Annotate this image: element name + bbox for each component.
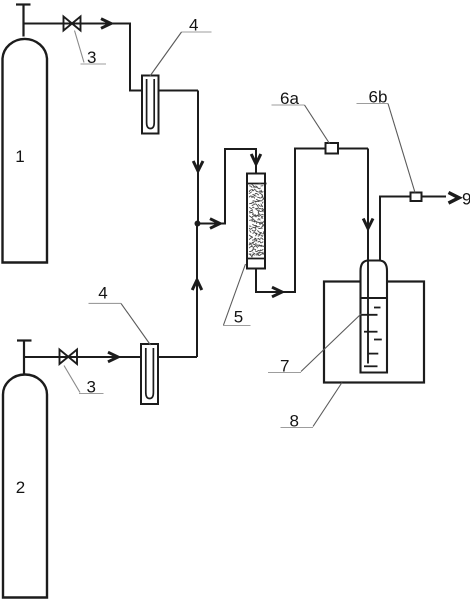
svg-text:2: 2 (16, 478, 25, 497)
gas burette 7 body (361, 261, 388, 373)
cylinder 2 valve stem (23, 341, 25, 375)
column 5 packing stipple (249, 184, 264, 258)
arrow up on vertical wire (192, 280, 202, 290)
wire: cylinder 1 outlet pipe (24, 23, 131, 25)
wire: burette outlet riser (380, 197, 446, 261)
wire: vertical down to junction (197, 91, 199, 224)
column 5 top cap line (247, 183, 267, 185)
wire: riser up to sensor line (295, 149, 368, 294)
arrow on pipe after bottom valve (108, 352, 118, 362)
leader line 3 (bottom) (64, 366, 80, 393)
leader line 3 (top) (75, 31, 85, 63)
svg-text:8: 8 (290, 412, 299, 431)
svg-text:5: 5 (234, 308, 243, 327)
leader line 5 (224, 264, 246, 325)
node: junction dot (195, 221, 201, 227)
leader line 7 (301, 314, 362, 372)
wire: riser up and over to column 5 (225, 149, 256, 225)
wire: vertical up to junction (196, 224, 198, 358)
label underline 7 (268, 372, 301, 374)
label underline 4 (top) (182, 31, 212, 33)
arrow on pipe after top valve (101, 19, 111, 29)
svg-text:4: 4 (98, 284, 107, 303)
wire: down to flowmeter 4 (top) (130, 23, 142, 91)
burette 7 liquid level line (361, 297, 388, 299)
cylinder 2 stem T-bar (17, 339, 32, 341)
leader line 8 (313, 383, 342, 427)
leader line 4 (bottom) (121, 303, 151, 345)
label underline 4 (bottom) (89, 302, 122, 304)
leader line 6a (305, 105, 330, 144)
svg-text:4: 4 (189, 16, 198, 35)
gas cylinder 2 (3, 375, 47, 598)
gas cylinder 1 (3, 39, 48, 263)
label underline 6b (357, 103, 389, 105)
arrow right toward column (210, 219, 220, 229)
svg-text:9: 9 (462, 190, 470, 209)
arrow to outlet 9 (449, 193, 460, 204)
wire: into column top (255, 148, 257, 174)
svg-text:7: 7 (280, 357, 289, 376)
leader line 4 (top) (150, 32, 182, 76)
wire: flowmeter 4 (top) outlet (159, 90, 199, 92)
svg-text:3: 3 (87, 378, 96, 397)
label underline 3 (top) (81, 63, 107, 65)
svg-text:6a: 6a (280, 89, 299, 108)
burette graduation tick 2 (361, 314, 378, 316)
cylinder 1 valve stem (22, 5, 24, 37)
burette graduation tick 6 (364, 365, 378, 367)
water bath box 8 (324, 282, 424, 383)
wire: cylinder 2 outlet pipe (24, 356, 141, 358)
sensor 6a box (326, 143, 339, 154)
wire: junction to riser (198, 223, 226, 225)
sensor 6b box (411, 193, 422, 202)
flowmeter 4 (top) inner tube (147, 79, 155, 129)
burette graduation tick 4 (374, 339, 382, 341)
label underline 6a (272, 104, 305, 106)
arrow into column 5 (251, 154, 261, 164)
cylinder 1 stem T-bar (16, 3, 31, 5)
valve 3 (top) (64, 17, 81, 31)
label underline 5 (223, 325, 251, 327)
burette 7 dip tube continuation (367, 261, 369, 364)
wire: flowmeter 4 (bottom) outlet (158, 356, 197, 358)
flowmeter 4 (bottom) body (141, 344, 158, 404)
arrow right after column outlet (272, 287, 282, 297)
flowmeter 4 (top) body (142, 76, 159, 134)
svg-text:1: 1 (15, 147, 24, 166)
column 5 bottom cap line (247, 258, 265, 260)
burette graduation tick 3 (364, 331, 378, 333)
svg-text:6b: 6b (369, 88, 388, 107)
arrow down on vertical wire (193, 161, 203, 171)
burette graduation tick 1 (374, 307, 381, 309)
wire: column 5 outlet down (256, 269, 295, 293)
label underline 3 (bottom) (79, 393, 104, 395)
valve 3 (bottom) (60, 350, 78, 365)
leader line 6b (388, 104, 415, 193)
label underline 8 (281, 427, 314, 429)
arrow down toward burette (363, 219, 373, 229)
column 5 body (247, 174, 265, 269)
burette graduation tick 5 (368, 353, 379, 355)
wire: down into gas burette (dip tube) (367, 149, 369, 364)
svg-text:3: 3 (87, 48, 96, 67)
flowmeter 4 (bottom) inner tube (146, 348, 154, 399)
